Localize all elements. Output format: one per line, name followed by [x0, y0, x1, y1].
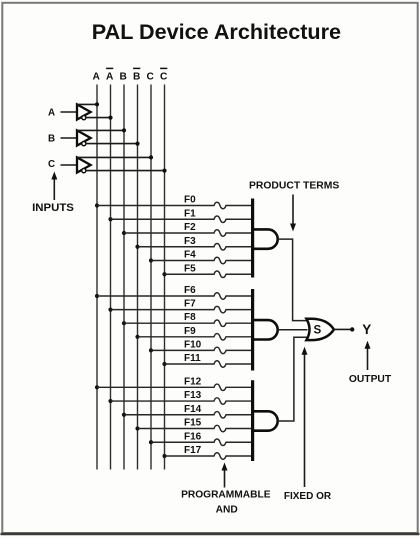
- OR gate S (fixed OR): [306, 319, 334, 340]
- node: junction B complement column: [135, 142, 139, 146]
- wire + fuse F7 (product term row): [111, 306, 253, 312]
- node: tap junction F16 on column 5: [149, 440, 153, 444]
- svg-text:Y: Y: [362, 322, 371, 337]
- svg-text:PRODUCT TERMS: PRODUCT TERMS: [249, 181, 339, 192]
- svg-text:AND: AND: [216, 504, 238, 515]
- svg-text:C: C: [160, 71, 168, 82]
- node: tap junction F13 on column 2: [108, 399, 112, 403]
- wire: AND U1 output to OR (down): [278, 239, 308, 321]
- wire: input column 1: [96, 85, 98, 470]
- AND gate U3 input bar: [251, 380, 254, 461]
- svg-text:B: B: [120, 71, 127, 82]
- node: junction A complement column: [108, 116, 112, 120]
- svg-text:A: A: [48, 108, 55, 119]
- node: tap junction F5 on column 6: [162, 272, 166, 276]
- node: tap junction F17 on column 6: [162, 454, 166, 458]
- wire: input column 4: [137, 85, 139, 470]
- wire: buffer C true output: [77, 156, 151, 158]
- wire: buffer A true output: [77, 103, 97, 105]
- svg-text:F3: F3: [184, 236, 196, 247]
- AND gate U2 body: [254, 320, 278, 339]
- wire: OR output to Y: [334, 328, 350, 330]
- wire: input C to buffer: [61, 164, 78, 166]
- wire + fuse F1 (product term row): [111, 216, 253, 222]
- wire + fuse F11 (product term row): [165, 361, 253, 367]
- node: junction C true column: [149, 155, 153, 159]
- node: junction B true column: [122, 128, 126, 132]
- svg-text:F15: F15: [184, 418, 202, 429]
- svg-text:F0: F0: [184, 195, 196, 206]
- wire + fuse F16 (product term row): [151, 439, 253, 445]
- svg-text:F11: F11: [184, 353, 201, 364]
- inversion bubble on buffer C: [82, 169, 86, 173]
- node: tap junction F15 on column 4: [135, 426, 139, 430]
- svg-text:F14: F14: [184, 404, 202, 415]
- svg-text:F1: F1: [184, 208, 196, 219]
- arrow: fixed-OR pointer (up): [304, 353, 306, 487]
- wire + fuse F10 (product term row): [151, 347, 253, 353]
- wire + fuse F2 (product term row): [124, 230, 253, 236]
- svg-text:PROGRAMMABLE: PROGRAMMABLE: [181, 489, 271, 500]
- arrow: INPUTS pointer: [53, 178, 55, 200]
- svg-text:A: A: [93, 71, 101, 82]
- svg-text:F2: F2: [184, 222, 196, 233]
- node: tap junction F3 on column 4: [135, 245, 139, 249]
- AND gate U1 body: [254, 229, 278, 248]
- wire: input column 2: [110, 85, 112, 470]
- node: tap junction F2 on column 3: [122, 231, 126, 235]
- wire + fuse F9 (product term row): [138, 334, 253, 340]
- svg-text:S: S: [314, 323, 322, 336]
- svg-text:F17: F17: [184, 445, 202, 456]
- arrow: programmable-AND pointer (up): [224, 469, 226, 488]
- svg-text:B: B: [133, 71, 140, 82]
- node: tap junction F7 on column 2: [108, 308, 112, 312]
- wire: AND U2 output to OR: [278, 329, 308, 331]
- svg-text:C: C: [48, 159, 55, 170]
- wire + fuse F3 (product term row): [138, 244, 253, 250]
- wire: buffer A complement output: [86, 117, 111, 119]
- inversion bubble on buffer B: [82, 142, 86, 146]
- wire + fuse F15 (product term row): [138, 425, 253, 431]
- svg-text:FIXED OR: FIXED OR: [284, 491, 332, 502]
- node: tap junction F8 on column 3: [122, 321, 126, 325]
- wire: input A to buffer: [61, 111, 78, 113]
- node: tap junction F4 on column 5: [149, 258, 153, 262]
- svg-text:F10: F10: [184, 339, 202, 350]
- wire + fuse F5 (product term row): [165, 271, 253, 277]
- svg-text:F13: F13: [184, 390, 202, 401]
- wire: buffer B complement output: [86, 143, 138, 145]
- svg-text:PAL Device Architecture: PAL Device Architecture: [92, 19, 341, 44]
- svg-text:A: A: [106, 71, 114, 82]
- svg-text:F4: F4: [184, 250, 196, 261]
- svg-text:INPUTS: INPUTS: [32, 202, 74, 214]
- buffer/inverter UA (triangle): [77, 104, 91, 119]
- wire + fuse F17 (product term row): [165, 453, 253, 459]
- arrow: product terms pointer (down): [292, 195, 294, 226]
- node: junction A true column: [95, 102, 99, 106]
- wire: input B to buffer: [61, 137, 78, 139]
- wire + fuse F4 (product term row): [151, 257, 253, 263]
- wire: input column 5: [150, 85, 152, 470]
- node: Y output dot: [350, 327, 354, 331]
- wire + fuse F13 (product term row): [111, 398, 253, 404]
- AND gate U2 input bar: [251, 289, 254, 371]
- wire: buffer B true output: [77, 129, 124, 131]
- svg-text:F6: F6: [184, 285, 196, 296]
- arrow: output pointer (up): [367, 347, 369, 370]
- svg-text:F9: F9: [184, 326, 196, 337]
- buffer/inverter UB (triangle): [77, 130, 91, 145]
- node: tap junction F0 on column 1: [95, 203, 99, 207]
- node: tap junction F10 on column 5: [149, 348, 153, 352]
- inversion bubble on buffer A: [82, 116, 86, 120]
- node: tap junction F11 on column 6: [162, 362, 166, 366]
- wire + fuse F0 (product term row): [97, 202, 253, 208]
- svg-text:F5: F5: [184, 263, 196, 274]
- wire: input column 3: [123, 85, 125, 470]
- svg-text:F7: F7: [184, 299, 196, 310]
- svg-text:F8: F8: [184, 312, 196, 323]
- node: tap junction F6 on column 1: [95, 294, 99, 298]
- svg-text:F16: F16: [184, 431, 202, 442]
- wire: buffer C complement output: [86, 170, 165, 172]
- wire: input column 6: [164, 85, 166, 470]
- AND gate U3 body: [254, 411, 278, 430]
- svg-text:B: B: [48, 134, 55, 145]
- AND gate U1 input bar: [251, 199, 254, 278]
- node: tap junction F12 on column 1: [95, 385, 99, 389]
- node: tap junction F9 on column 4: [135, 335, 139, 339]
- node: tap junction F1 on column 2: [108, 217, 112, 221]
- node: junction C complement column: [162, 169, 166, 173]
- buffer/inverter UC (triangle): [77, 157, 91, 172]
- node: tap junction F14 on column 3: [122, 413, 126, 417]
- wire + fuse F14 (product term row): [124, 412, 253, 418]
- svg-text:F12: F12: [184, 376, 202, 387]
- svg-text:OUTPUT: OUTPUT: [349, 374, 392, 385]
- wire + fuse F6 (product term row): [97, 293, 253, 299]
- wire + fuse F12 (product term row): [97, 384, 253, 390]
- svg-text:C: C: [147, 71, 155, 82]
- wire: AND U3 output to OR (up): [278, 337, 308, 421]
- wire + fuse F8 (product term row): [124, 320, 253, 326]
